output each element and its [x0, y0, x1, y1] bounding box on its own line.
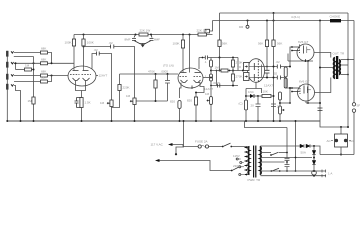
svg-text:1M: 1M: [100, 101, 105, 105]
resistor R10 supply decoupler 1: [135, 34, 137, 36]
svg-text:1M: 1M: [25, 64, 30, 68]
wire: PI output lower: [254, 77, 286, 79]
diode D3: [306, 144, 310, 148]
svg-text:1.5K: 1.5K: [85, 100, 91, 104]
wire: V5 plate to OT primary bottom: [315, 78, 331, 93]
wire: coupling line 2 (V1a plate): [92, 54, 112, 101]
wire: V1 cathode leads to common: [76, 81, 86, 98]
wire: V2 second top lead: [189, 34, 191, 36]
node: V1b plate / coupling junction: [83, 46, 85, 48]
wire: bus drop to CT: [245, 121, 288, 128]
wire: tone middle row: [211, 70, 243, 72]
wire: cathode to ground bus: [81, 108, 83, 122]
wire: bias step to grid return: [280, 102, 290, 104]
resistor R25 PI cathode tail: [244, 100, 247, 110]
wire: coupling line V1b plate to volume pot: [84, 47, 135, 99]
resistor R20 tone right upper (vertical): [232, 58, 234, 86]
svg-text:68K: 68K: [41, 70, 46, 74]
svg-text:PWR. TR: PWR. TR: [248, 178, 261, 182]
wire: V1 right grid stub: [96, 75, 98, 77]
wire: V4 plate to OT primary top: [314, 53, 331, 58]
transformer T1 output: primary winding: [333, 58, 335, 79]
node: jack4 ground on bus: [20, 120, 22, 122]
node: after diode: [257, 95, 259, 97]
resistor R16 cathode V2b: [194, 97, 197, 105]
transformer T1 core: [336, 56, 338, 79]
capacitor C15 plate-to-plate: [265, 70, 270, 73]
wire: assembly bottom to return line: [340, 147, 342, 155]
transformer T1 secondary winding: [339, 60, 340, 75]
diode D1 supply: [246, 95, 250, 97]
tube V1 cathodes: [73, 78, 90, 81]
wire: heater line 2: [260, 175, 326, 177]
wire: OT secondary bottom to ground column: [341, 74, 348, 76]
resistor R21 tone right lower (vertical): [232, 74, 235, 81]
wire: OT center tap to screen column: [320, 67, 333, 69]
wire: rectifier column: [313, 146, 315, 171]
wire: mixing resistor up to V2 grid line: [119, 74, 121, 85]
transformer T2 core: [254, 146, 256, 178]
transformer T2 power: primary winding: [248, 147, 249, 175]
svg-text:100K: 100K: [65, 41, 72, 45]
wire: rectifier mid line: [260, 157, 312, 159]
wire: jack1 shunt contact to 1M branch: [14, 56, 34, 58]
wire: fuse to switch: [209, 146, 222, 148]
svg-text:6V6 GT: 6V6 GT: [298, 40, 309, 44]
capacitor C10 filter 1: [256, 96, 261, 121]
potentiometer VR3 bias/hum balance: [279, 92, 281, 121]
potentiometer VR4 tone: [210, 86, 212, 97]
wire: V2 grid line: [120, 73, 179, 75]
node: rows 1+2 junction: [51, 62, 53, 64]
wire: R6 up to row 3: [48, 76, 52, 82]
capacitor C7 tone bottom: [218, 84, 220, 88]
svg-text:FUSE 2A: FUSE 2A: [195, 139, 208, 143]
wire: tone column top wire: [199, 57, 238, 59]
wire: jack2 contact drop: [15, 63, 17, 69]
wire: 1M vertical branch: [33, 57, 35, 98]
wire: rail A (plate supply): [220, 12, 349, 14]
svg-text:.0005: .0005: [213, 81, 221, 85]
svg-text:CHOKE: CHOKE: [330, 15, 341, 19]
wire: 6V6 no.2 grid feed: [286, 78, 292, 104]
wire: input row 4: [14, 81, 41, 83]
wire: screen supply column: [319, 21, 321, 122]
wire: 1M branch lower to ground bus: [33, 104, 35, 121]
svg-text:12AX7: 12AX7: [264, 84, 273, 88]
wire: HV secondary lead 2 with switch: [260, 152, 271, 154]
jack J2 (input 2): [7, 62, 13, 68]
wire: 6V6 no.1 grid feed: [290, 47, 292, 67]
tube V4 plate bar: [303, 46, 305, 54]
potentiometer VR2 volume 2: [110, 100, 113, 107]
resistor R9 cathode (vertical): [80, 98, 83, 108]
diode D2: [300, 144, 304, 148]
resistor R8 plate load V1b: [83, 34, 85, 36]
resistor R14 supply decoupler 2: [198, 33, 207, 36]
resistor R22 middle row: [221, 69, 228, 72]
tube V1 grids (dashed): [70, 74, 91, 76]
wire: bottom return line: [320, 154, 354, 156]
svg-text:230V: 230V: [233, 164, 240, 168]
svg-text:8MF: 8MF: [125, 38, 131, 42]
tube V3 phase inverter envelope: [247, 59, 264, 83]
jack J5 speaker (contacts): [352, 103, 355, 106]
svg-text:(TO LN): (TO LN): [163, 64, 174, 68]
wire: OT secondary mid tap: [341, 64, 348, 66]
wire: rectifier ground riser: [295, 121, 297, 171]
svg-text:56K: 56K: [277, 41, 282, 45]
tube V2 right plate stub: [191, 86, 193, 90]
svg-text:100K: 100K: [87, 41, 94, 45]
wire: rail B (screen supply): [213, 20, 355, 22]
capacitor C11 filter 2: [271, 104, 276, 107]
AC plug prong 2 (arrow): [155, 159, 160, 162]
wire: VR2 ground leg: [111, 108, 113, 122]
diode D4 (vertical): [312, 151, 316, 155]
svg-text:4 (6-1): 4 (6-1): [291, 15, 300, 19]
capacitor C2 decoupling left: [132, 35, 141, 45]
svg-text:12AX7: 12AX7: [204, 87, 213, 91]
svg-text:50A: 50A: [301, 151, 306, 155]
svg-text:(C): (C): [239, 101, 243, 105]
wire: plate feed into V2 right: [198, 58, 200, 70]
wire: rail A right drop: [347, 13, 349, 127]
resistor R26 supply dropper: [258, 95, 262, 97]
tube V2 12AX7 envelope: [178, 68, 203, 88]
tube V4 6V6GT no.1: [297, 44, 314, 61]
resistor R11 mixing (vertical): [118, 85, 121, 91]
svg-text:22K 1W: 22K 1W: [197, 28, 208, 32]
tube V1 12AY7 envelope: [68, 66, 96, 86]
wire: AC hot lead: [172, 145, 198, 147]
svg-text:68K: 68K: [41, 76, 46, 80]
wire: tone bottom row: [211, 85, 238, 87]
wire: ground bus: [7, 120, 320, 122]
switch S2 voltage selector: [231, 170, 233, 172]
tube V1 plates: [73, 70, 89, 72]
tube V2 plates: [181, 72, 201, 74]
svg-text:117 V.AC: 117 V.AC: [151, 142, 164, 146]
wire: volume 1 wiper line: [136, 100, 167, 102]
svg-text:TO: TO: [237, 65, 242, 69]
wire: jack sleeve ground line: [6, 51, 8, 121]
wire: V2 right cathode jog: [196, 83, 204, 98]
resistor R5 68K: [41, 74, 48, 77]
resistor R13 V2 plate load: [182, 34, 184, 36]
terminal TP1 B+ takeoff: [247, 20, 249, 22]
svg-text:68K: 68K: [41, 47, 46, 51]
wire: rail B left drop with tag: [209, 21, 213, 32]
tube V3 grid (vertical dashed): [257, 61, 259, 82]
jack J1 (input 1): [7, 51, 13, 57]
capacitor C12 screen bypass: [318, 108, 323, 111]
tube V3 cathode bar: [261, 65, 263, 78]
svg-text:DR: DR: [239, 25, 244, 29]
capacitor C4 coupling 1: [111, 45, 114, 49]
AC plug prong 1 (arrow): [168, 143, 173, 146]
potentiometer VR1 volume 1: [133, 98, 136, 105]
svg-text:22K 1W: 22K 1W: [140, 28, 151, 32]
svg-text:820: 820: [187, 98, 192, 102]
svg-text:270K: 270K: [236, 74, 243, 78]
node: chassis tie point: [175, 153, 177, 155]
wire: input row 2 (jack2 tip) to V1 plate column: [14, 62, 74, 64]
wire: ground riser upper segment: [286, 128, 288, 159]
resistor R12 grid stopper (vertical): [155, 73, 157, 75]
wire: right column link: [237, 58, 239, 71]
tube V5 grid bars: [292, 88, 300, 92]
svg-text:.02: .02: [109, 41, 114, 45]
svg-text:20: 20: [251, 103, 255, 107]
resistor R27 grid leak upper (vertical): [284, 67, 287, 77]
wire: mid-to-bottom link: [216, 71, 218, 86]
resistor R18 tone left upper (vertical): [210, 58, 212, 86]
svg-text:12AY7: 12AY7: [99, 74, 108, 78]
svg-text:1M: 1M: [28, 99, 33, 103]
resistor R7 plate load V1a: [73, 35, 75, 40]
capacitor C3 decoupling right: [145, 35, 154, 45]
svg-text:SP: SP: [357, 103, 360, 107]
svg-text:OUT. TR: OUT. TR: [333, 51, 345, 55]
svg-text:115V: 115V: [233, 154, 240, 158]
wire: speaker line right drop: [353, 21, 355, 155]
svg-text:1N4: 1N4: [248, 90, 254, 94]
wire: preamp B+ rail: [74, 34, 213, 36]
svg-text:.02: .02: [94, 48, 99, 52]
svg-text:56K: 56K: [258, 41, 263, 45]
T2 primary taps (arrows): [245, 148, 250, 175]
svg-text:1M: 1M: [205, 92, 210, 96]
resistor R17 dropping: [218, 40, 221, 47]
capacitor C16 treble: [205, 56, 207, 60]
svg-text:270K: 270K: [236, 60, 243, 64]
capacitor C5 coupling 2: [97, 52, 100, 56]
svg-text:6V6 GT: 6V6 GT: [299, 80, 310, 84]
diode D5 (vertical): [312, 161, 316, 165]
outlet/lamp assembly E1: [340, 127, 342, 134]
jack J3 (input 3): [7, 74, 13, 80]
node: choke input: [319, 20, 321, 22]
wire: input row 3 (jack3 tip) to V1 grid: [14, 75, 68, 77]
svg-text:820: 820: [170, 99, 175, 103]
capacitor C1 cathode bypass: [75, 98, 82, 108]
node: 1M column crosses row 2: [33, 62, 35, 64]
wire: heater line 1: [260, 170, 326, 172]
capacitor C8 coupling upper: [277, 65, 280, 69]
wire: rail drop lower to mid row: [219, 58, 221, 71]
jack J4 (input 4): [7, 84, 13, 90]
capacitor C6 bright (vertical): [167, 73, 169, 75]
svg-text:.1: .1: [204, 74, 207, 78]
wire: switch to PT primary top: [232, 146, 249, 148]
svg-text:.1: .1: [204, 60, 207, 64]
wire: rail A left drop: [219, 13, 221, 40]
resistor R15 cathode V2a: [178, 101, 181, 109]
wire: R1 to junction, down to row 2: [48, 53, 52, 64]
wire: PI cathode: [246, 82, 262, 96]
wire: jack4 tip step-down ground: [14, 86, 21, 122]
tube V5 6V6GT no.2: [298, 84, 315, 101]
wire: OT secondary top to speaker line: [341, 59, 354, 61]
svg-text:1M: 1M: [126, 94, 131, 98]
wire: cathode bus to bypass: [307, 61, 309, 103]
resistor R3 1M (vertical): [32, 97, 35, 104]
capacitor C13 line bypass: [285, 158, 290, 164]
resistor R2 68K: [41, 62, 48, 65]
svg-text:1 A: 1 A: [328, 172, 332, 176]
svg-text:.02: .02: [273, 71, 278, 75]
resistor R23 PI plate 1 (from rail B): [266, 20, 268, 22]
wire: rectifier output to corner: [310, 146, 320, 155]
wire: V2 left cathode down: [180, 83, 182, 99]
resistor R1 68K: [41, 51, 48, 54]
fuse F1: [198, 145, 201, 148]
svg-text:20: 20: [277, 104, 281, 108]
wire: input row 1 (jack1 tip): [14, 52, 41, 54]
wire: V4 cathode line: [288, 59, 313, 61]
svg-text:470K: 470K: [148, 70, 155, 74]
svg-text:.02: .02: [276, 60, 281, 64]
svg-text:100K: 100K: [173, 41, 180, 45]
tube V3 grid boxes: [244, 63, 250, 71]
wire: ground bus right extension: [320, 121, 348, 127]
lamp DS1 pilot: [312, 171, 317, 176]
switch S1 power: [222, 146, 224, 148]
svg-text:AC: AC: [327, 139, 332, 143]
svg-text:8MF: 8MF: [154, 38, 160, 42]
switch S3 heater line: [272, 168, 279, 171]
resistor R28 grid leak lower (vertical): [284, 78, 287, 88]
transformer T2 secondary winding: [260, 147, 261, 175]
capacitor C9 coupling lower: [277, 76, 280, 80]
svg-text:10K: 10K: [263, 89, 268, 93]
choke L1 (filled): [330, 19, 341, 22]
resistor R19 tone left lower (vertical): [210, 74, 213, 81]
node: 1M branch on bus: [33, 120, 35, 122]
node: PI grid entry: [242, 70, 244, 72]
node: rows 3+4 junction: [51, 75, 53, 77]
resistor R24 PI plate 2 (from rail A): [273, 12, 275, 14]
resistor R4 1M channel 1: [16, 69, 25, 71]
wire: HV center tap to ground riser: [260, 161, 284, 163]
node: sleeve line on bus: [6, 120, 8, 122]
resistor R6 68K: [41, 80, 48, 83]
wire: V5 cathode to screen column: [306, 101, 320, 103]
capacitor C14 line bypass 2: [285, 165, 290, 171]
svg-text:220K: 220K: [123, 86, 130, 90]
tube V5 plate bar: [303, 86, 305, 94]
wire: V2 right grid to tone column: [203, 77, 211, 79]
tube V2 grids (dashed): [180, 76, 202, 78]
svg-text:1M: 1M: [215, 65, 220, 69]
svg-text:.0005: .0005: [161, 70, 169, 74]
tube V2 cathodes: [181, 80, 201, 83]
wire: VR2 bottom jog to mixing resistor: [112, 91, 120, 108]
tube V4 grid bars: [292, 47, 300, 51]
ground: decoupling caps: [140, 44, 146, 47]
tube V3 plates (vertical bars): [253, 63, 255, 81]
svg-text:56K: 56K: [222, 41, 227, 45]
wire: PI output upper: [254, 66, 290, 68]
svg-text:68K: 68K: [41, 57, 46, 61]
wire: AC neutral lead: [159, 161, 231, 171]
wire: ground bus drop to chassis point: [176, 121, 184, 154]
wire: HV secondary top to rectifier: [260, 145, 300, 147]
